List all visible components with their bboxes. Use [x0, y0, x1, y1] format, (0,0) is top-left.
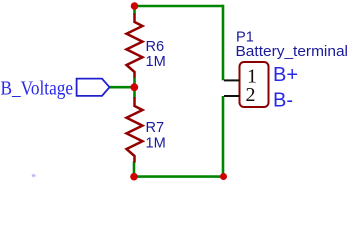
wire: from port B_Voltage to middle node	[109, 86, 134, 89]
wire: right vertical upper (corner down to P1 pin 1)	[222, 5, 225, 81]
wire: stub between middle node and R7 top	[133, 87, 136, 97]
connector P1 pin 1 number	[247, 66, 257, 88]
wire: bottom horizontal (R7 bottom node to bottom right node)	[134, 175, 224, 178]
connector P1 pin 2 line	[224, 95, 240, 97]
port B_Voltage name label	[1, 78, 74, 100]
pin name label B+	[273, 64, 298, 86]
resistor R7 value label 1M	[146, 136, 166, 152]
resistor R7 designator label	[146, 120, 165, 136]
connector P1 comment label Battery_terminal	[236, 44, 349, 60]
svg-text:1M: 1M	[146, 136, 166, 152]
stray screenshot speck (artifact)	[32, 175, 36, 177]
connector P1 pin 1 line	[224, 79, 240, 81]
svg-text:B_Voltage: B_Voltage	[1, 78, 74, 100]
resistor R6 designator label	[146, 39, 165, 55]
wire: right vertical lower (P1 pin 2 down to bottom right node)	[222, 96, 225, 177]
resistor R7	[127, 97, 143, 163]
connector P1 pin 2 number	[246, 84, 256, 106]
connector P1 body box	[240, 62, 269, 107]
pin name label B-	[273, 90, 293, 112]
wire: top horizontal from R6 top node to right corner	[135, 5, 224, 8]
node: middle junction (B_Voltage tap)	[130, 83, 138, 91]
port B_Voltage symbol	[77, 79, 110, 96]
wire: stub between R7 bottom and bottom node	[133, 162, 136, 177]
svg-text:B-: B-	[273, 90, 293, 112]
svg-text:R7: R7	[146, 120, 165, 136]
resistor R6 value label 1M	[146, 54, 166, 70]
wire: stub between R6 bottom and middle node	[133, 77, 136, 87]
node: bottom left junction at R7 bottom	[130, 173, 138, 181]
svg-text:1M: 1M	[146, 54, 166, 70]
svg-text:R6: R6	[146, 39, 165, 55]
svg-text:B+: B+	[273, 64, 298, 86]
connector P1 designator label	[236, 30, 254, 46]
svg-text:2: 2	[246, 84, 256, 106]
svg-text:Battery_terminal: Battery_terminal	[236, 44, 349, 60]
wire: stub above R6	[133, 6, 136, 15]
resistor R6	[127, 14, 143, 78]
node: bottom right junction	[220, 173, 227, 180]
node: top junction at R6/top wire	[131, 2, 139, 10]
